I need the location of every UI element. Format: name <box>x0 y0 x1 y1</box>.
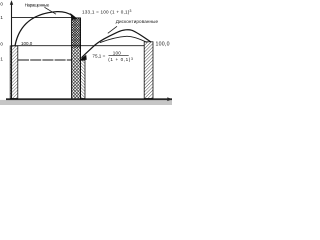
compounding arrowhead <box>70 13 77 20</box>
svg-text:100,0: 100,0 <box>21 41 33 46</box>
svg-text:(1 + 0,1)3: (1 + 0,1)3 <box>108 57 133 62</box>
svg-text:133,1 = 100 (1 + 0,1)3: 133,1 = 100 (1 + 0,1)3 <box>82 9 132 14</box>
svg-text:100: 100 <box>113 51 122 56</box>
level line 100,0 <box>11 45 144 47</box>
discounting curve inner edge (crescent) <box>100 36 147 42</box>
vertical value axis <box>11 3 13 99</box>
bar 133,1 outline <box>72 18 81 99</box>
baseline (time axis) <box>6 98 172 100</box>
svg-text:75,1: 75,1 <box>0 57 3 62</box>
svg-text:133,1: 133,1 <box>0 15 3 20</box>
level line 133,1 <box>11 17 72 19</box>
bar 100,0 (left, present sum) <box>10 46 18 99</box>
svg-text:Дисконтированные: Дисконтированные <box>116 19 159 24</box>
svg-text:100,0: 100,0 <box>0 41 3 46</box>
fraction bar <box>109 55 129 57</box>
level line 75,1 (dashed) <box>18 59 72 61</box>
ground shading band below time axis <box>0 100 172 105</box>
time axis arrowhead (right end) <box>167 97 172 101</box>
bar 75,1 (offset extension, discounted sum) <box>81 60 86 98</box>
svg-text:100,0: 100,0 <box>156 42 170 48</box>
background <box>0 0 172 105</box>
svg-text:75,1 =: 75,1 = <box>92 54 105 59</box>
svg-text:140,0: 140,0 <box>0 2 3 7</box>
axis arrowhead <box>10 0 13 5</box>
discounting arrowhead <box>78 55 86 61</box>
discounting curve <box>82 30 151 58</box>
label pointer (accrual) <box>45 7 57 14</box>
bar 100,0 (right, future sum) <box>144 42 153 99</box>
svg-text:Наращенные: Наращенные <box>25 3 50 8</box>
bar 133,1 (middle, compounded sum) upper part <box>72 18 81 48</box>
compounding curve (accrual arc) <box>15 12 73 46</box>
bar 133,1 (middle) lower part <box>72 48 81 99</box>
label pointer (discounting) <box>108 26 117 33</box>
